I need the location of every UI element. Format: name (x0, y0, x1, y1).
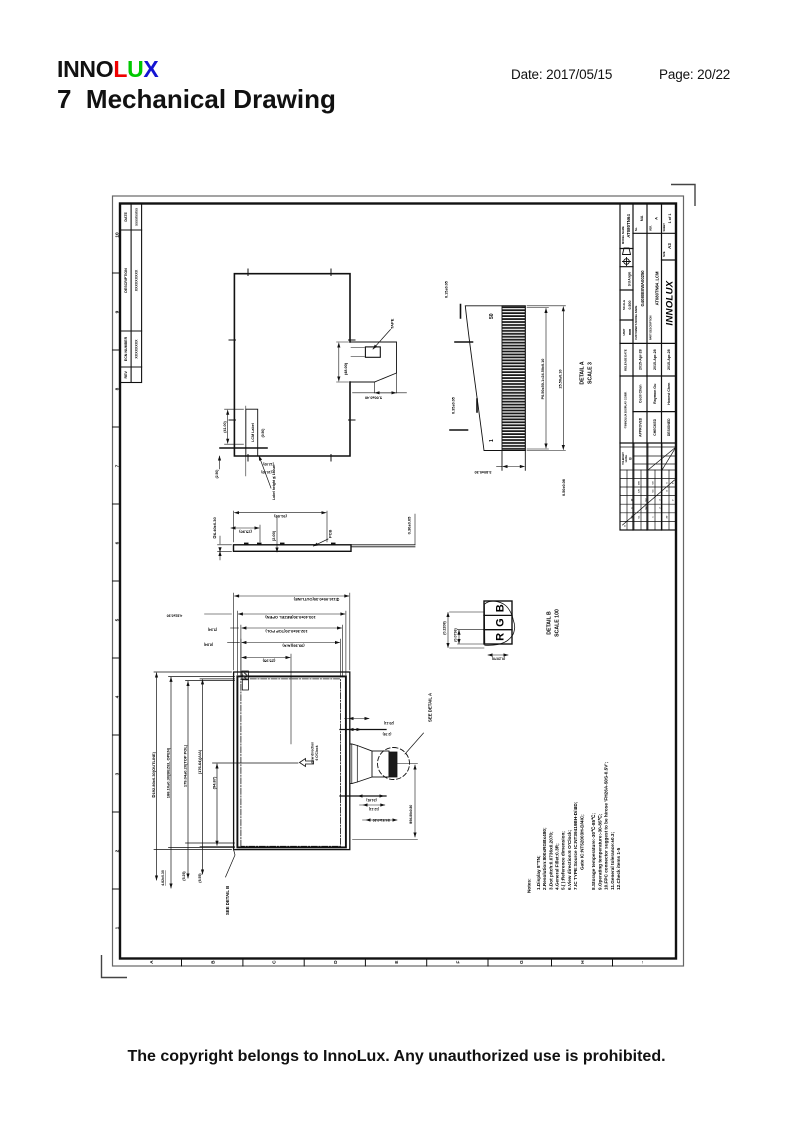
dim (0.2208) (447, 613, 449, 648)
detail A circle (dashed) (378, 748, 410, 780)
title block column lines (620, 442, 676, 444)
svg-text:PART DESCRIPTION: PART DESCRIPTION (650, 315, 653, 340)
svg-text:400: 400 (638, 480, 641, 484)
svg-text:DATE: DATE (124, 211, 128, 221)
svg-text:G: G (519, 960, 525, 964)
svg-text:7: 7 (115, 464, 121, 467)
dim 116.90 OUTLINE ext lines (234, 593, 350, 670)
svg-text:(25.95): (25.95) (262, 658, 275, 663)
dim 5.00 (353, 373, 407, 393)
svg-text:120: 120 (639, 488, 641, 492)
third angle projection symbol (623, 248, 631, 266)
svg-text:(0.0736): (0.0736) (454, 628, 458, 642)
back view outline (234, 274, 350, 456)
svg-text:2015-Apr-28: 2015-Apr-28 (667, 349, 671, 370)
svg-text:SIZE: SIZE (663, 251, 666, 257)
front view outline (234, 672, 350, 850)
dim 94.87 (213, 763, 299, 845)
svg-text:4: 4 (115, 695, 121, 698)
svg-text:102.36±0.20(TOP POL): 102.36±0.20(TOP POL) (265, 629, 308, 634)
side view body bar (234, 545, 352, 552)
svg-text:(24.61): (24.61) (366, 798, 376, 802)
dim 99.36 A/A (241, 639, 341, 677)
pin1 hatched marker (242, 671, 248, 680)
date (511, 67, 612, 82)
dim (0.2070) rotated (488, 654, 508, 656)
svg-text:VER.: VER. (650, 225, 653, 231)
svg-text:9.Operating temperature:-30-85: 9.Operating temperature:-30-85℃; (596, 813, 602, 890)
svg-text:No.: No. (635, 227, 638, 231)
svg-text:LCM Label: LCM Label (251, 423, 255, 442)
svg-text:R: R (495, 633, 507, 641)
svg-text:(0.2208): (0.2208) (443, 621, 447, 635)
svg-text:0.35±0.05: 0.35±0.05 (452, 397, 456, 414)
svg-text:10.FPC connector suggest to be: 10.FPC connector suggest to be hirose 'F… (604, 762, 609, 890)
heading (57, 84, 336, 115)
svg-text:188.10±0.30(BEZEL OPEN): 188.10±0.30(BEZEL OPEN) (166, 747, 171, 798)
svg-text:3.Dot pitch:0.0736x0.2070;: 3.Dot pitch:0.0736x0.2070; (548, 831, 553, 890)
FPC dim ext lines (340, 730, 386, 797)
FPC connector (dark) (389, 752, 397, 777)
svg-text:4.82±0.30: 4.82±0.30 (161, 870, 165, 886)
svg-text:MODEL NAME: MODEL NAME (621, 226, 625, 244)
svg-text:XXXXXXXXX: XXXXXXXXX (135, 269, 139, 291)
svg-text:(12.11): (12.11) (369, 807, 379, 811)
svg-text:(20.11): (20.11) (384, 721, 394, 725)
svg-text:NA: NA (639, 215, 644, 221)
svg-text:4.General Fillet:0.3R;: 4.General Fillet:0.3R; (555, 843, 560, 890)
svg-text:APPROVED: APPROVED (639, 417, 643, 437)
svg-text:REV: REV (124, 371, 128, 379)
svg-text:(91.00): (91.00) (274, 514, 287, 519)
svg-text:--: -- (640, 960, 645, 963)
svg-text:5.00±0.40: 5.00±0.40 (365, 396, 382, 400)
svg-text:DETAIL A: DETAIL A (580, 361, 586, 384)
svg-text:1: 1 (115, 926, 121, 929)
svg-text:6.View direction:6 O'Clock;: 6.View direction:6 O'Clock; (567, 829, 572, 890)
dim (2.00) (276, 516, 278, 552)
svg-text:CUSTOMER'S MODEL NAME: CUSTOMER'S MODEL NAME (635, 305, 638, 340)
svg-text:50: 50 (489, 313, 495, 319)
svg-text:DESIGNED: DESIGNED (667, 418, 671, 436)
detail B pixel blob outline (484, 601, 514, 645)
svg-text:xxxx/xx/xx: xxxx/xx/xx (135, 208, 139, 226)
svg-text:1°: 1° (673, 499, 675, 501)
svg-text:SEE DETAIL B: SEE DETAIL B (225, 886, 230, 915)
svg-text:(48.00): (48.00) (344, 362, 348, 375)
svg-text:G: G (495, 618, 507, 627)
svg-text:0.30±0.05: 0.30±0.05 (407, 516, 412, 535)
revision table (120, 204, 142, 383)
svg-text:②116.90±0.30(OUTLINE): ②116.90±0.30(OUTLINE) (293, 597, 339, 602)
svg-text:(6.55): (6.55) (198, 873, 202, 882)
svg-text:Label height ≦ 180um: Label height ≦ 180um (272, 465, 276, 500)
detail A connector stiffener (502, 451, 525, 471)
dim (0.0736) (458, 630, 460, 643)
title block row lines (633, 204, 662, 531)
svg-text:SCALE: SCALE (622, 300, 626, 310)
svg-text:G: G (625, 525, 627, 527)
dim 188.10 BEZEL OPEN (169, 676, 235, 888)
dim (91.00) (234, 511, 328, 542)
front view active area (dash-dot) (241, 679, 341, 846)
dim 103.40 BEZEL OPEN (237, 611, 346, 675)
svg-text:F: F (455, 961, 461, 964)
view direction arrow (300, 759, 314, 767)
svg-text:(25.90): (25.90) (239, 529, 252, 534)
svg-text:B: B (210, 960, 216, 964)
svg-text:SCALE 100: SCALE 100 (555, 609, 561, 637)
svg-text:AT080TN64: AT080TN64 (626, 214, 631, 238)
svg-text:5: 5 (667, 482, 669, 484)
dim 25.50 (527, 306, 566, 451)
svg-text:B: B (629, 457, 633, 460)
svg-text:(2.50): (2.50) (215, 470, 219, 479)
dim (25.90) (231, 525, 260, 542)
svg-text:(6.84): (6.84) (204, 643, 213, 647)
svg-text:5: 5 (115, 618, 121, 621)
svg-text:Honest Chen: Honest Chen (667, 383, 671, 405)
overhang ticks (450, 305, 477, 431)
svg-text:2.Resolution:800xRGBx480;: 2.Resolution:800xRGBx480; (542, 827, 547, 890)
dim (41.00) (225, 409, 244, 444)
svg-text:D: D (333, 960, 339, 964)
svg-text:8: 8 (115, 387, 121, 390)
svg-text:P0.50x50-1=24.50±0.10: P0.50x50-1=24.50±0.10 (541, 359, 545, 400)
dim 176.64 A/A (200, 679, 235, 874)
svg-text:103.40±0.30(BEZEL OPEN): 103.40±0.30(BEZEL OPEN) (265, 615, 316, 620)
svg-text:TOLERANT: TOLERANT (622, 452, 625, 465)
grid row letters left edge (149, 960, 586, 964)
svg-text:3: 3 (115, 772, 121, 775)
svg-text:(41.00): (41.00) (223, 421, 227, 433)
front view bezel opening (thick) (237, 676, 346, 847)
svg-text:0.8: 0.8 (653, 481, 655, 485)
svg-text:179.04±0.20(TOP POL): 179.04±0.20(TOP POL) (183, 744, 188, 787)
svg-text:(10.50): (10.50) (261, 470, 271, 474)
LCM label (246, 409, 258, 456)
dim 179.04 TOP POL (186, 681, 235, 879)
sheet outer border (113, 196, 684, 966)
svg-text:8.Storage temperature:-30℃-85℃: 8.Storage temperature:-30℃-85℃; (590, 813, 596, 890)
svg-text:A: A (654, 217, 659, 220)
dim pitch P0.50 (527, 308, 549, 450)
svg-text:(2.76): (2.76) (383, 732, 392, 736)
grid row ticks left edge (182, 959, 613, 967)
footer copyright (0, 1048, 793, 1066)
svg-text:E: E (394, 960, 400, 964)
detail A pin strip (502, 306, 525, 451)
svg-text:11.General tolerance:±0.3;: 11.General tolerance:±0.3; (610, 831, 615, 890)
svg-text:Notes:: Notes: (527, 878, 532, 893)
tolerance table grid (620, 443, 676, 530)
svg-text:C: C (272, 960, 278, 964)
svg-text:SCALE 3: SCALE 3 (588, 362, 594, 384)
side view film tail (351, 545, 415, 547)
svg-text:(2.00): (2.00) (271, 530, 276, 541)
svg-text:4: 4 (666, 490, 669, 492)
svg-text:(176.64)(A/A): (176.64)(A/A) (197, 749, 202, 774)
svg-text:ECN NUMBER: ECN NUMBER (124, 336, 128, 361)
FPC tail below front view (350, 744, 372, 784)
svg-text:(0.2070): (0.2070) (491, 657, 505, 661)
svg-text:2015-Apr-28: 2015-Apr-28 (639, 349, 643, 370)
label aux lines (220, 447, 267, 449)
svg-text:6 O'Clock: 6 O'Clock (315, 745, 319, 760)
svg-text:(0.50): (0.50) (261, 429, 265, 438)
dim (48.00) (337, 342, 349, 382)
title block outline (620, 204, 676, 531)
svg-text:12.Check items 1-5: 12.Check items 1-5 (616, 847, 621, 890)
svg-text:SEE DETAIL A: SEE DETAIL A (428, 693, 433, 722)
dim 102.36 TOP POL (241, 625, 343, 677)
svg-text:(12.00): (12.00) (263, 462, 273, 466)
svg-text:6: 6 (115, 541, 121, 544)
back view FPC tab (350, 342, 397, 382)
back view edge ticks (229, 269, 355, 461)
svg-text:(94.87): (94.87) (212, 776, 217, 789)
svg-text:5.( ):Reference dimension;: 5.( ):Reference dimension; (561, 831, 566, 890)
svg-text:CHECKED: CHECKED (653, 418, 657, 435)
corner trim mark bottom-left (102, 955, 128, 978)
svg-text:G4080E0WA00250: G4080E0WA00250 (640, 270, 645, 307)
svg-text:0.5: 0.5 (653, 489, 655, 493)
svg-text:3.80±0.30: 3.80±0.30 (475, 470, 492, 474)
dim (25.95) (242, 654, 291, 744)
svg-text:UNIT: UNIT (622, 328, 626, 335)
svg-text:INNOLUX: INNOLUX (665, 280, 676, 325)
svg-text:DESCRIPTION: DESCRIPTION (124, 268, 128, 293)
svg-text:④4.51±0.80: ④4.51±0.80 (373, 818, 391, 822)
svg-text:A3: A3 (667, 243, 672, 249)
tape on tab (365, 347, 380, 357)
detail B RGB cell (484, 601, 512, 644)
svg-text:TAPE: TAPE (390, 318, 395, 329)
svg-text:0.1: 0.1 (639, 515, 641, 519)
grid column numbers top edge (115, 232, 121, 929)
corner trim mark top-right (671, 185, 695, 207)
svg-text:1 of 1: 1 of 1 (668, 213, 672, 223)
svg-text:2015-Apr-28: 2015-Apr-28 (653, 349, 657, 370)
svg-text:1: 1 (653, 516, 655, 518)
svg-text:0.500: 0.500 (628, 301, 632, 310)
svg-text:Cecil Chen: Cecil Chen (639, 385, 643, 404)
svg-text:1.Display 8"TN;: 1.Display 8"TN; (536, 855, 541, 890)
svg-text:mm: mm (628, 329, 632, 335)
svg-text:4.82±0.30: 4.82±0.30 (167, 614, 183, 618)
detail A film outline (465, 306, 525, 451)
svg-text:H: H (580, 960, 586, 964)
svg-text:Raymon Gu: Raymon Gu (653, 384, 657, 404)
dim 3.80 (503, 466, 524, 468)
svg-text:AT080TN64_LCM: AT080TN64_LCM (655, 271, 660, 305)
svg-text:DETAIL B: DETAIL B (547, 611, 553, 635)
signature rows (639, 417, 672, 437)
sheet inner border (120, 204, 676, 959)
svg-text:②6.40±0.30: ②6.40±0.30 (212, 517, 217, 539)
svg-text:(5.25): (5.25) (182, 871, 186, 880)
side view components (244, 543, 336, 545)
svg-text:B: B (495, 604, 507, 612)
svg-text:0.50±0.08: 0.50±0.08 (562, 479, 566, 496)
svg-text:XXXXXXXX: XXXXXXXX (135, 339, 139, 359)
svg-text:A: A (149, 960, 155, 964)
svg-text:25.50±0.10: 25.50±0.10 (558, 370, 562, 389)
svg-text:7.IC TYPE:Source IC:NT39419BH-: 7.IC TYPE:Source IC:NT39419BH-D/4ID; (573, 801, 578, 890)
svg-text:3rd Angle: 3rd Angle (628, 271, 632, 286)
svg-text:④94.86±0.80: ④94.86±0.80 (409, 805, 413, 825)
svg-text:PCB: PCB (328, 529, 333, 538)
svg-text:2: 2 (115, 849, 121, 852)
svg-text:(5.34): (5.34) (208, 628, 217, 632)
grid column ticks top edge (113, 273, 121, 889)
svg-text:(99.36)(A/A): (99.36)(A/A) (282, 644, 305, 649)
svg-text:0.15±0.05: 0.15±0.05 (445, 281, 449, 298)
FPC connector body (372, 751, 389, 777)
page number (659, 67, 730, 82)
header logo INNOLUX (57, 56, 158, 83)
svg-text:RELEASE DATE: RELEASE DATE (624, 349, 628, 371)
svg-text:1: 1 (489, 439, 495, 442)
svg-text:30': 30' (667, 515, 669, 518)
svg-text:②192.80±0.30(OUTLINE): ②192.80±0.30(OUTLINE) (151, 751, 156, 798)
svg-text:2°: 2° (673, 482, 675, 484)
svg-text:Gate IC:NT52003H-D/4IC;: Gate IC:NT52003H-D/4IC; (579, 814, 584, 870)
dim 192.80 OUTLINE (154, 672, 232, 880)
detail B ext lines (450, 612, 485, 648)
svg-text:©INNOLUX DISPLAY CORP.: ©INNOLUX DISPLAY CORP. (624, 392, 628, 429)
svg-text:SHEET: SHEET (663, 223, 666, 232)
